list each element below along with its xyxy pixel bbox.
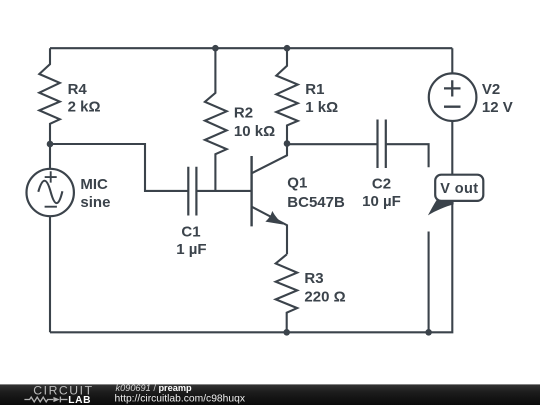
svg-text:12 V: 12 V	[482, 99, 513, 116]
svg-text:BC547B: BC547B	[287, 194, 345, 211]
svg-text:C1: C1	[181, 224, 200, 241]
svg-text:1 kΩ: 1 kΩ	[305, 99, 338, 116]
svg-text:220 Ω: 220 Ω	[304, 288, 345, 305]
svg-text:Q1: Q1	[287, 175, 307, 192]
svg-text:10 kΩ: 10 kΩ	[234, 123, 275, 140]
svg-text:C2: C2	[372, 175, 391, 192]
svg-text:R4: R4	[68, 81, 88, 98]
svg-text:V out: V out	[440, 181, 478, 197]
svg-text:k090691 / preamp: k090691 / preamp	[116, 383, 193, 393]
svg-text:LAB: LAB	[68, 395, 91, 405]
svg-text:1 µF: 1 µF	[176, 241, 206, 258]
svg-text:V2: V2	[482, 81, 500, 98]
svg-text:R3: R3	[304, 270, 323, 287]
svg-text:R1: R1	[305, 81, 324, 98]
svg-text:2 kΩ: 2 kΩ	[68, 99, 101, 116]
svg-text:sine: sine	[80, 194, 110, 211]
svg-text:http://circuitlab.com/c98huqx: http://circuitlab.com/c98huqx	[115, 394, 246, 405]
svg-text:MIC: MIC	[80, 176, 108, 193]
svg-text:10 µF: 10 µF	[362, 193, 401, 210]
svg-text:R2: R2	[234, 104, 253, 121]
